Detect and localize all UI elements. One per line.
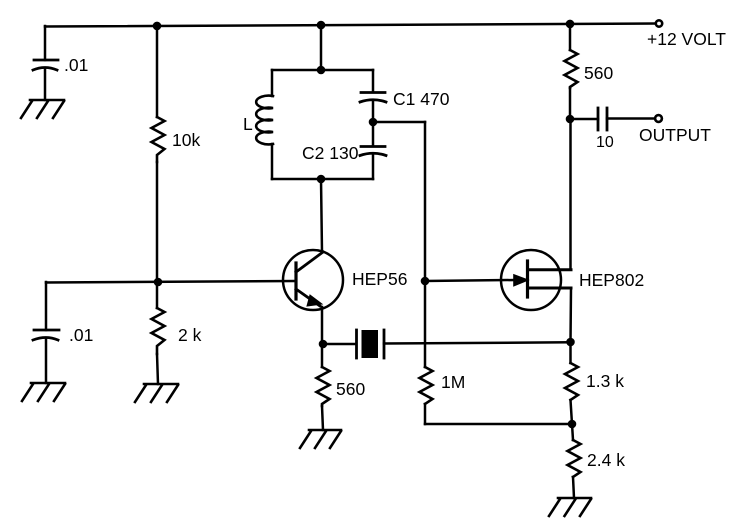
- svg-text:C2 130: C2 130: [302, 143, 359, 163]
- svg-text:1.3 k: 1.3 k: [586, 371, 624, 391]
- svg-text:10k: 10k: [172, 130, 200, 150]
- svg-text:10: 10: [596, 134, 614, 151]
- svg-text:2 k: 2 k: [178, 325, 202, 345]
- svg-text:.01: .01: [69, 325, 93, 345]
- svg-text:L: L: [243, 114, 253, 134]
- svg-text:560: 560: [336, 379, 365, 399]
- svg-text:560: 560: [584, 63, 613, 83]
- svg-text:2.4 k: 2.4 k: [587, 450, 625, 470]
- svg-text:1M: 1M: [441, 372, 465, 392]
- svg-text:HEP56: HEP56: [352, 269, 407, 289]
- svg-text:+12 VOLT: +12 VOLT: [647, 29, 726, 49]
- svg-text:OUTPUT: OUTPUT: [639, 125, 711, 145]
- svg-text:HEP802: HEP802: [579, 270, 644, 290]
- svg-text:.01: .01: [64, 55, 88, 75]
- svg-text:C1 470: C1 470: [393, 89, 450, 109]
